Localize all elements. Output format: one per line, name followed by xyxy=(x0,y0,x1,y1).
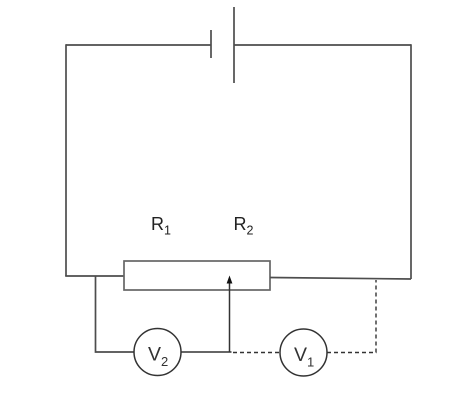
wire right side xyxy=(410,44,412,279)
svg-text:V: V xyxy=(148,344,161,366)
wiper arrow of potentiometer xyxy=(227,276,233,353)
voltmeter V2 xyxy=(134,329,181,376)
label R1 xyxy=(151,214,171,238)
battery B1 long plate xyxy=(233,7,235,83)
svg-text:R: R xyxy=(151,214,164,234)
voltmeter V1 xyxy=(280,329,327,376)
dashed wire wiper node to V1 xyxy=(233,352,280,354)
svg-text:R: R xyxy=(234,214,247,234)
battery B1 short plate xyxy=(210,30,212,58)
wire V2 to wiper node xyxy=(181,351,232,353)
svg-text:V: V xyxy=(294,344,307,366)
wire top-right segment xyxy=(234,44,411,46)
potentiometer body R1/R2 xyxy=(124,261,270,290)
wire potentiometer right to right side xyxy=(270,278,411,280)
svg-text:1: 1 xyxy=(164,224,171,238)
label R2 xyxy=(234,214,254,238)
dashed wire up to bottom-right wire xyxy=(375,280,377,353)
wire top-left segment xyxy=(66,44,211,46)
svg-text:1: 1 xyxy=(307,355,314,370)
wire left side xyxy=(65,44,67,276)
wire bottom-left to potentiometer xyxy=(65,275,124,277)
svg-text:2: 2 xyxy=(247,224,254,238)
wire left branch down to V2 xyxy=(96,276,135,352)
dashed wire V1 to right xyxy=(327,352,377,354)
svg-text:2: 2 xyxy=(161,354,168,369)
